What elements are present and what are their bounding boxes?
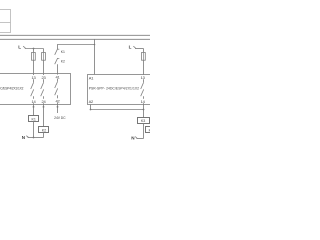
wire chain 13-14 right inside box (143, 75, 145, 83)
pin 24 (41, 99, 46, 103)
node dot chain1 (33, 106, 35, 108)
wire L horizontal (left) (25, 48, 44, 50)
svg-text:K1: K1 (31, 117, 35, 121)
svg-text:K4: K4 (149, 129, 150, 133)
contact 41-42 (two in series) (55, 81, 58, 88)
wire 42 supply stub (57, 105, 59, 114)
wire K2 to N (43, 133, 45, 138)
lead arrow from L (23, 46, 26, 48)
wire N (right) (136, 138, 143, 140)
wire chain 13-14 inside box (33, 74, 35, 83)
node junction on header line 2 (94, 44, 96, 46)
wire feedback into relay box (57, 64, 59, 73)
svg-text:K1: K1 (61, 50, 65, 54)
fuse F2 (42, 53, 46, 61)
wire A2 return drop (90, 105, 92, 110)
wire A2 return horizontal (91, 109, 144, 111)
wire drop to right relay A1 (94, 39, 96, 74)
svg-text:K3: K3 (141, 119, 145, 123)
svg-text:24V DC: 24V DC (54, 116, 66, 120)
header rule line 2 (0, 38, 150, 40)
wire fuse F1 drop (33, 49, 35, 74)
relay box U2 (right PSR module, cut at right edge) (88, 75, 154, 105)
node dot A2 (90, 109, 92, 111)
contact 13-14 (two NO in series) (31, 82, 34, 89)
svg-text:-24UC/ESP4/2X1/1X2: -24UC/ESP4/2X1/1X2 (0, 87, 24, 91)
contact K2 (NC, feedback) (55, 58, 58, 64)
lead arrow to N right (135, 137, 137, 139)
coil K1 (29, 116, 39, 122)
pin 14 right (140, 99, 145, 103)
wire K3 to N (143, 124, 145, 139)
wire chain 41-42 inside box (57, 74, 59, 82)
pin 13 (31, 75, 36, 79)
wire L horizontal (right) (135, 48, 144, 50)
wire 14 to K3 coil (143, 105, 145, 118)
wire N (left) (28, 137, 44, 139)
pin 42 (55, 98, 60, 102)
node dot junction 14/A2 (143, 109, 145, 111)
node dot chain2 (43, 106, 45, 108)
pin 14 (31, 99, 36, 103)
node junction on L wire (33, 48, 35, 50)
pin 23 (41, 75, 46, 79)
lead arrow from L right (133, 46, 136, 48)
header rule line 1 (0, 34, 150, 36)
wire feedback loop top (to A1 of right relay) (58, 45, 95, 49)
svg-text:K2: K2 (61, 60, 65, 64)
svg-text:L: L (129, 45, 132, 50)
contact 23-24 (two NO in series) (41, 82, 44, 89)
node dot N left (33, 137, 35, 139)
contact 13-14 right (two NO in series) (141, 82, 144, 89)
wire fuse F2 drop (43, 49, 45, 74)
svg-text:L: L (18, 45, 21, 50)
wire fuse F3 drop (143, 49, 145, 75)
wire chain 23-24 inside box (43, 74, 45, 83)
lead arrow to N (26, 136, 28, 138)
svg-text:K2: K2 (42, 128, 46, 132)
fuse F1 (32, 53, 36, 61)
relay box U1 (left PSR module, cut at left edge) (0, 74, 71, 105)
wire 14 to K1 coil (33, 105, 35, 116)
svg-text:PSR-SPP- 24DC/ESP4/2X1/1X2: PSR-SPP- 24DC/ESP4/2X1/1X2 (89, 87, 139, 91)
coil K2 (39, 127, 49, 133)
logo box (title block, cut at left edge) (0, 10, 11, 33)
pin 13 right (140, 75, 145, 79)
node dot chain3 (57, 106, 59, 108)
fuse F3 (142, 53, 146, 61)
contact K1 (NC, feedback) (55, 49, 58, 55)
wire K1 to N (33, 122, 35, 138)
wire 24 to K2 coil (43, 105, 45, 127)
pin 41 (55, 75, 60, 79)
coil K3 (138, 118, 150, 124)
coil K4 (cut at right edge) (146, 127, 156, 133)
